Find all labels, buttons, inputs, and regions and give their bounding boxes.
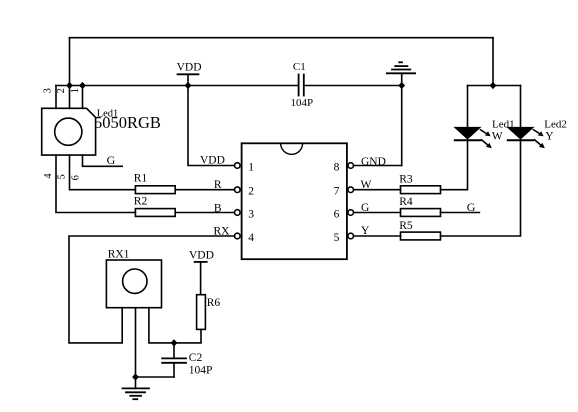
svg-text:R5: R5 [399, 220, 413, 232]
svg-text:C1: C1 [293, 61, 306, 73]
IR receiver RX1 body [106, 260, 161, 308]
wire RGB pin 1 stub [82, 86, 84, 109]
wire R1 to IC pin 2 [175, 189, 234, 191]
wire IC pin 7 to R3 [354, 189, 401, 191]
resistor R5 [401, 232, 441, 240]
wire RGB pin 6 lead to net G [83, 155, 123, 166]
svg-text:G: G [107, 153, 116, 167]
wire RGB pin 4 lead down to R2 row [56, 155, 135, 212]
svg-text:W: W [361, 179, 372, 191]
svg-text:VDD: VDD [177, 62, 202, 74]
resistor R1 [135, 186, 175, 194]
pin circles left [235, 163, 241, 169]
wire RX1 middle pin to ground [135, 308, 137, 389]
svg-text:B: B [214, 203, 222, 215]
node junction at RGB pin 1 [79, 82, 86, 89]
svg-text:RX1: RX1 [108, 249, 130, 261]
LED Led1 [467, 86, 469, 128]
wire left drop from top rail to RGB pin 2 [69, 38, 71, 109]
power VDD symbol (bottom) [195, 261, 207, 263]
wire R4 to net G [441, 212, 480, 214]
svg-text:5050RGB: 5050RGB [94, 113, 161, 132]
LED2 emission arrows [534, 130, 541, 134]
svg-text:8: 8 [334, 162, 340, 174]
wire main VDD rail right section [304, 85, 402, 87]
svg-text:1: 1 [248, 162, 254, 174]
wire right drop from top rail to LED rail [492, 38, 494, 86]
ground earth symbol (bottom) [123, 388, 150, 399]
svg-text:4: 4 [43, 173, 54, 179]
wire main VDD rail left section [56, 85, 299, 87]
wire R2 to IC pin 3 [175, 212, 234, 214]
svg-text:G: G [361, 202, 369, 214]
capacitor C2 [162, 357, 186, 359]
svg-text:104P: 104P [189, 364, 213, 376]
svg-text:VDD: VDD [189, 250, 214, 262]
svg-text:6: 6 [71, 175, 82, 180]
capacitor C1 [298, 75, 300, 96]
resistor R2 [135, 209, 175, 217]
svg-text:104P: 104P [291, 97, 314, 109]
svg-text:VDD: VDD [200, 155, 225, 167]
svg-text:GND: GND [361, 156, 386, 168]
wire ground stub down to GND pin row [401, 73, 403, 165]
svg-text:3: 3 [248, 209, 254, 221]
node junction at VDD stub [185, 82, 192, 89]
node junction at RGB pin 2 [66, 82, 73, 89]
svg-text:R4: R4 [399, 196, 413, 208]
svg-text:5: 5 [334, 232, 340, 244]
power VDD symbol (top) [178, 73, 199, 75]
op-amp / controller IC U1 body [242, 143, 347, 259]
resistor R6 [197, 295, 206, 330]
wire GND to IC pin 8 [354, 165, 402, 167]
wire C2 bottom to RX1 middle pin [136, 376, 175, 378]
svg-text:R2: R2 [134, 195, 148, 207]
svg-text:R3: R3 [399, 173, 413, 185]
LED1 emission arrows [481, 130, 488, 134]
wire top rail [70, 37, 494, 39]
svg-text:2: 2 [248, 186, 254, 198]
wire LED anode rail [468, 85, 521, 87]
ground earth symbol (top) [387, 62, 415, 73]
node junction C2 bottom on middle pin [132, 373, 139, 380]
wire IC pin 5 to R5 [354, 235, 401, 237]
wire RX1 right pin to R6 bottom [149, 308, 201, 343]
svg-text:R1: R1 [134, 172, 148, 184]
wire R5 to LED2 cathode [441, 140, 521, 236]
svg-text:7: 7 [334, 186, 340, 198]
svg-text:W: W [492, 131, 503, 143]
wire RGB pin 3 stub [55, 86, 57, 109]
svg-text:R6: R6 [207, 297, 221, 309]
resistor R4 [401, 209, 441, 217]
wire IC pin 4 to RX1 [69, 236, 235, 343]
svg-text:2: 2 [56, 88, 67, 93]
wire VDD rail down to IC pin 1 [188, 86, 235, 166]
node junction at LED rail [490, 82, 497, 89]
node junction ground stub on rail [398, 82, 405, 89]
svg-text:5: 5 [57, 174, 68, 179]
svg-text:1: 1 [70, 88, 81, 93]
RGB LED Led1 5050RGB package body [42, 108, 96, 155]
svg-text:3: 3 [43, 88, 54, 93]
LED Led2 [520, 86, 522, 128]
resistor R3 [401, 186, 441, 194]
wire RGB pin 5 lead down to R1 row [70, 155, 136, 190]
svg-text:6: 6 [334, 209, 340, 221]
svg-text:C2: C2 [189, 352, 203, 364]
svg-text:Y: Y [545, 131, 554, 143]
node junction C2 top tap [171, 339, 178, 346]
svg-text:G: G [467, 200, 476, 214]
wire IC pin 6 to R4 [354, 212, 401, 214]
svg-text:Led2: Led2 [544, 118, 567, 130]
svg-text:4: 4 [248, 232, 254, 244]
svg-text:R: R [214, 179, 222, 191]
svg-text:Y: Y [361, 225, 370, 237]
wire R3 to LED1 cathode [441, 140, 468, 189]
pin circles right [348, 163, 354, 169]
